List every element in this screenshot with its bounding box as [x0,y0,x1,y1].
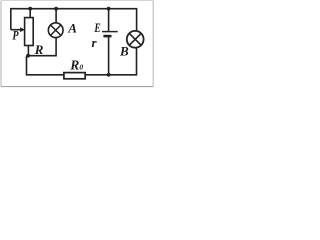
lamp B [127,31,144,48]
svg-text:P: P [12,29,19,43]
wire: junction to lamp A bottom [28,38,56,56]
wire: top bus to R top [29,9,31,18]
svg-text:B: B [119,44,129,59]
battery E short plate [103,35,111,38]
wire: lamp B bottom to bottom bus [85,48,136,75]
svg-text:R: R [34,42,44,57]
border frame [0,1,2,87]
node: junction dot below R [26,54,30,58]
node: junction dot above lamp A [54,7,58,11]
wire: lamp A top to top bus [55,9,57,23]
battery E long plate [102,31,118,33]
node: junction dot top of R [28,7,32,11]
wiper arrowhead P [20,27,25,32]
wire: top bus with left drop and right drop [11,9,137,31]
node: junction dot battery bottom [107,73,111,77]
wire: R bottom to junction [27,46,29,56]
background [0,0,156,89]
resistor R (box) [25,18,34,46]
svg-text:A: A [67,21,77,36]
wire: wiper lead [11,29,21,31]
svg-text:R: R [69,58,79,73]
wire: battery - plate to bottom bus [108,37,110,74]
wire: top bus to battery + plate [108,9,110,31]
lamp A [48,23,63,38]
svg-text:0: 0 [79,63,83,72]
resistor R0 (box) [64,73,85,79]
node: junction dot above battery [107,7,111,11]
svg-text:E: E [93,22,101,36]
wire: junction down to bottom bus left corner [27,56,64,75]
